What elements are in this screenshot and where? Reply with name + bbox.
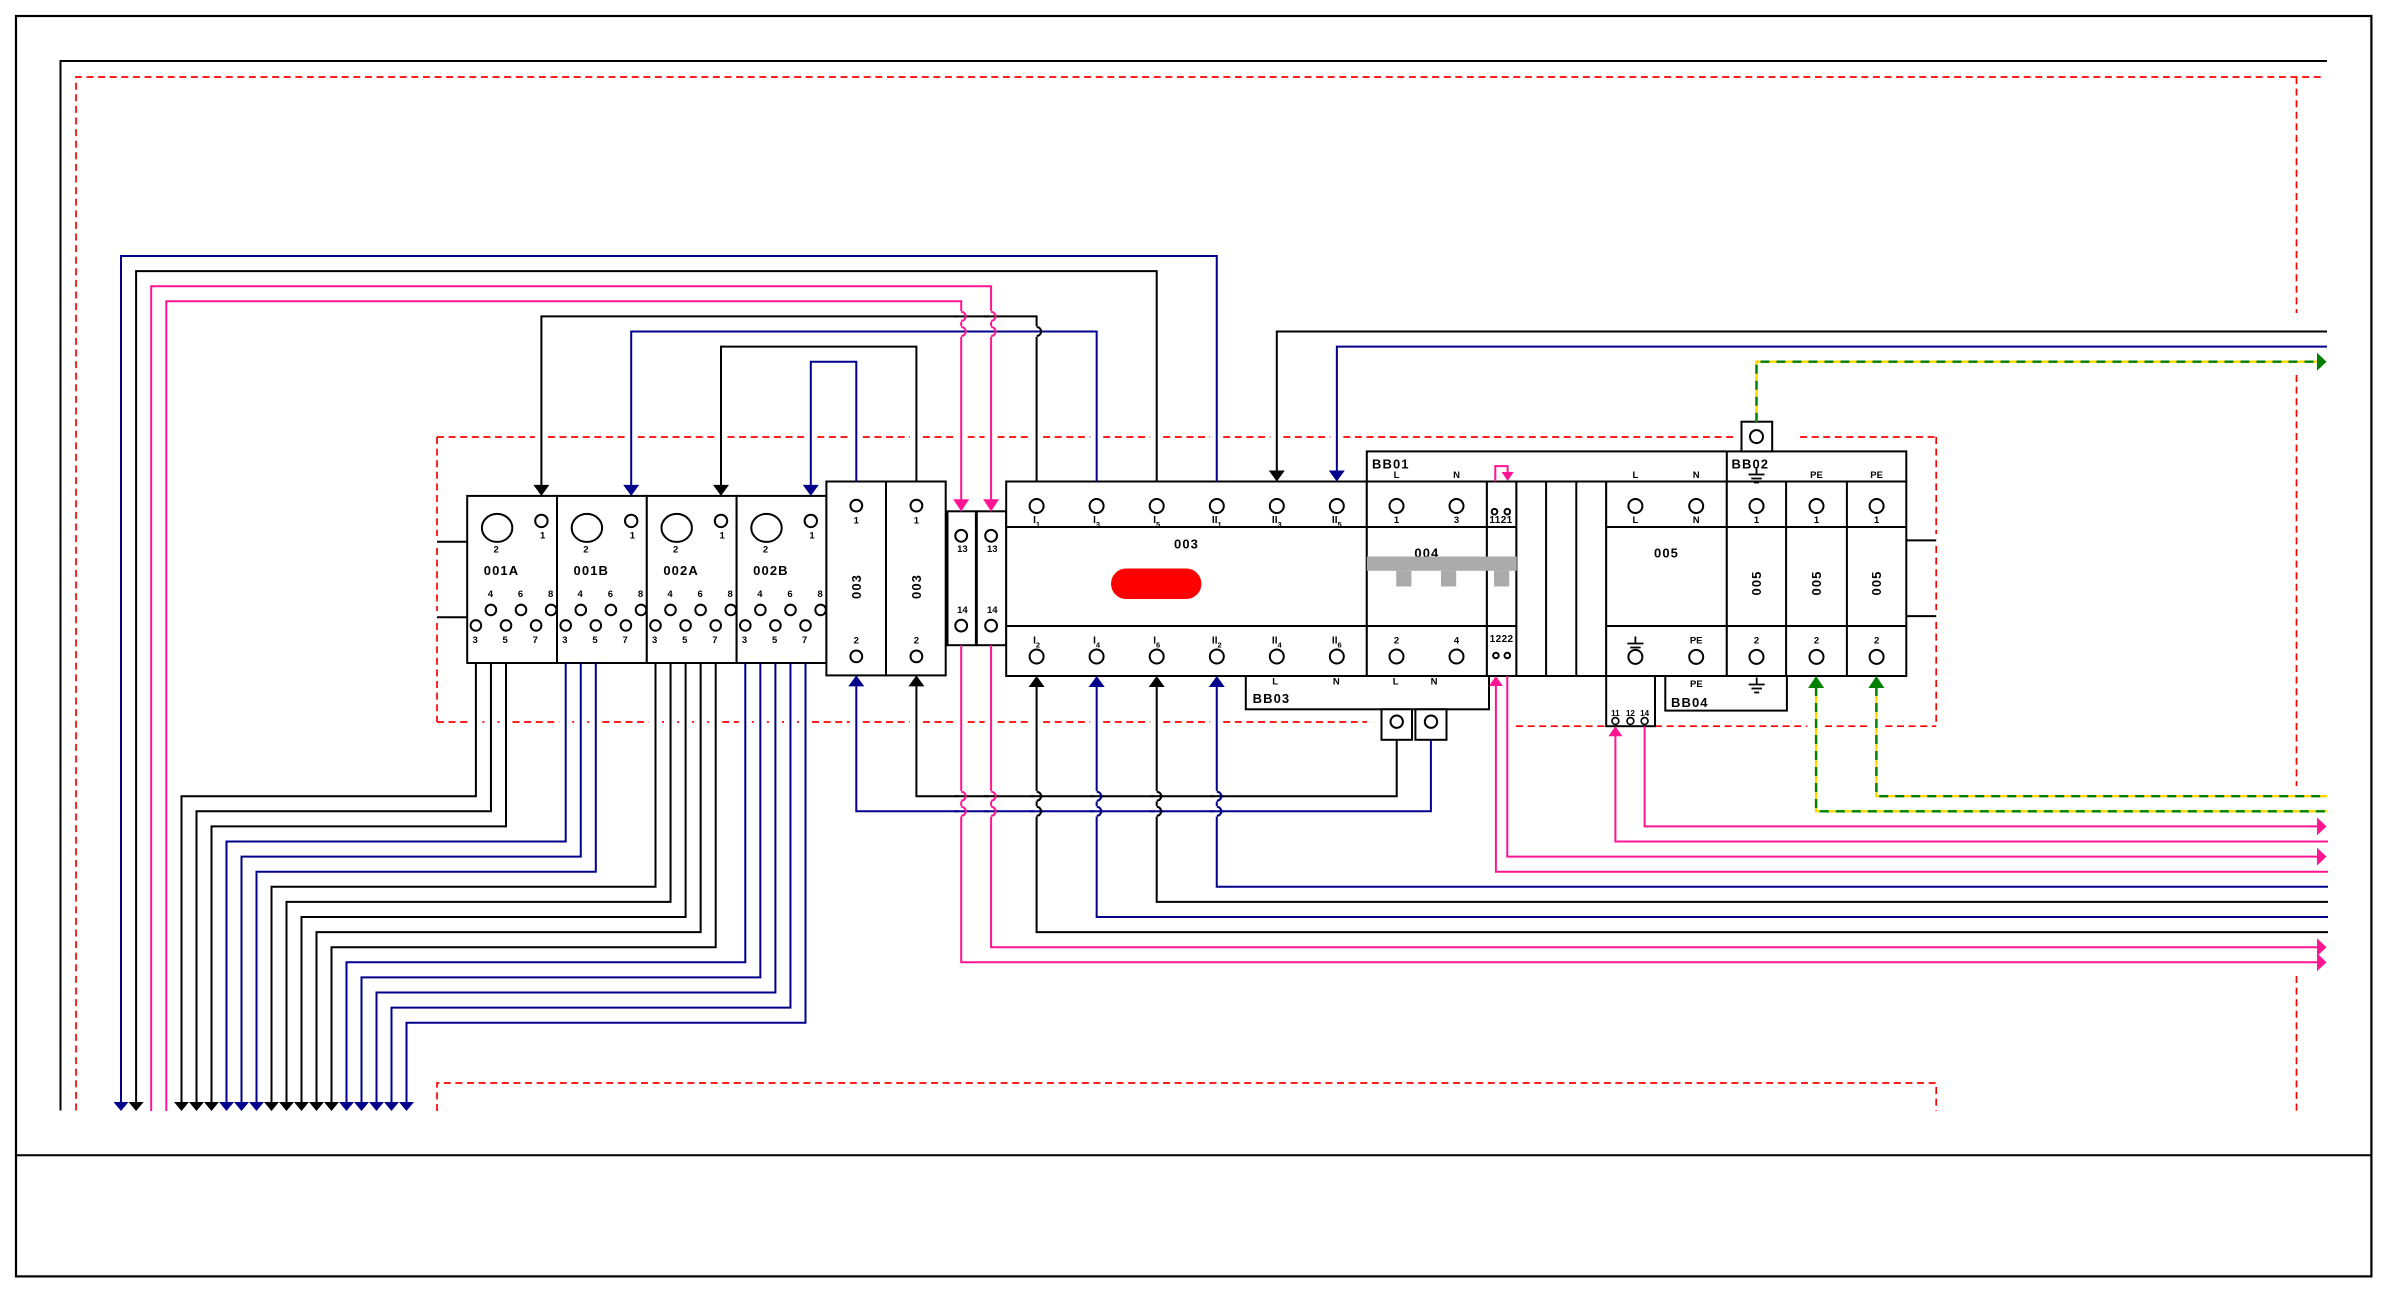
svg-text:L: L: [1632, 515, 1638, 526]
svg-text:7: 7: [622, 635, 627, 646]
svg-text:2: 2: [673, 544, 678, 555]
svg-text:003: 003: [1174, 536, 1199, 551]
svg-text:2: 2: [1394, 636, 1399, 647]
svg-text:1: 1: [1394, 515, 1400, 526]
svg-text:8: 8: [817, 589, 822, 600]
svg-text:1: 1: [914, 516, 920, 527]
svg-text:3: 3: [472, 635, 477, 646]
svg-text:005: 005: [1869, 571, 1884, 596]
svg-text:3: 3: [1454, 515, 1459, 526]
svg-text:1: 1: [854, 516, 860, 527]
svg-text:PE: PE: [1810, 470, 1823, 481]
svg-text:5: 5: [503, 635, 509, 646]
svg-text:1222: 1222: [1490, 634, 1514, 645]
svg-text:N: N: [1453, 470, 1460, 481]
svg-text:8: 8: [728, 589, 733, 600]
svg-text:1: 1: [720, 531, 726, 542]
svg-text:4: 4: [757, 589, 763, 600]
svg-text:N: N: [1693, 515, 1700, 526]
svg-text:N: N: [1693, 470, 1700, 481]
svg-text:14: 14: [987, 605, 998, 616]
svg-text:4: 4: [578, 589, 584, 600]
svg-text:6: 6: [697, 589, 702, 600]
svg-text:3: 3: [742, 635, 747, 646]
svg-text:1: 1: [1874, 515, 1880, 526]
svg-text:4: 4: [488, 589, 494, 600]
svg-text:N: N: [1333, 676, 1340, 687]
svg-text:6: 6: [787, 589, 792, 600]
svg-text:2: 2: [1874, 636, 1879, 647]
svg-text:BB01: BB01: [1372, 457, 1410, 472]
svg-text:5: 5: [682, 635, 688, 646]
svg-text:3: 3: [652, 635, 657, 646]
svg-text:14: 14: [957, 605, 968, 616]
svg-text:2: 2: [583, 544, 588, 555]
svg-text:BB03: BB03: [1253, 691, 1291, 706]
svg-text:1: 1: [1814, 515, 1820, 526]
svg-text:3: 3: [562, 635, 567, 646]
svg-text:2: 2: [763, 544, 768, 555]
svg-text:003: 003: [849, 574, 864, 599]
svg-text:L: L: [1394, 470, 1400, 481]
svg-text:PE: PE: [1690, 679, 1703, 690]
svg-text:7: 7: [712, 635, 717, 646]
svg-text:1121: 1121: [1489, 515, 1512, 526]
svg-text:8: 8: [548, 589, 553, 600]
svg-text:005: 005: [1749, 571, 1764, 596]
svg-text:005: 005: [1654, 546, 1679, 561]
svg-text:7: 7: [802, 635, 807, 646]
svg-text:2: 2: [1754, 636, 1759, 647]
svg-text:L: L: [1272, 676, 1278, 687]
svg-text:001A: 001A: [484, 563, 519, 578]
svg-text:5: 5: [592, 635, 598, 646]
svg-text:4: 4: [1454, 636, 1460, 647]
svg-text:1: 1: [1754, 515, 1760, 526]
svg-text:6: 6: [518, 589, 523, 600]
svg-text:4: 4: [667, 589, 673, 600]
svg-text:13: 13: [957, 544, 968, 555]
svg-text:002A: 002A: [663, 563, 698, 578]
svg-text:13: 13: [987, 544, 998, 555]
svg-text:2: 2: [854, 636, 859, 647]
svg-text:1: 1: [809, 531, 815, 542]
svg-text:BB02: BB02: [1732, 457, 1770, 472]
svg-text:6: 6: [608, 589, 613, 600]
svg-text:2: 2: [914, 636, 919, 647]
svg-text:005: 005: [1809, 571, 1824, 596]
svg-text:1: 1: [540, 531, 546, 542]
svg-text:8: 8: [638, 589, 643, 600]
svg-text:BB04: BB04: [1671, 695, 1709, 710]
svg-text:L: L: [1393, 676, 1399, 687]
svg-text:003: 003: [909, 574, 924, 599]
svg-text:PE: PE: [1870, 470, 1883, 481]
svg-text:2: 2: [493, 544, 498, 555]
svg-text:002B: 002B: [753, 563, 788, 578]
svg-text:PE: PE: [1690, 636, 1703, 647]
svg-text:11: 11: [1611, 709, 1620, 718]
svg-text:2: 2: [1814, 636, 1819, 647]
svg-text:1: 1: [630, 531, 636, 542]
svg-text:14: 14: [1640, 709, 1649, 718]
svg-text:N: N: [1431, 676, 1438, 687]
svg-text:5: 5: [772, 635, 778, 646]
svg-text:7: 7: [533, 635, 538, 646]
svg-text:12: 12: [1626, 709, 1635, 718]
svg-text:001B: 001B: [574, 563, 609, 578]
svg-text:L: L: [1632, 470, 1638, 481]
